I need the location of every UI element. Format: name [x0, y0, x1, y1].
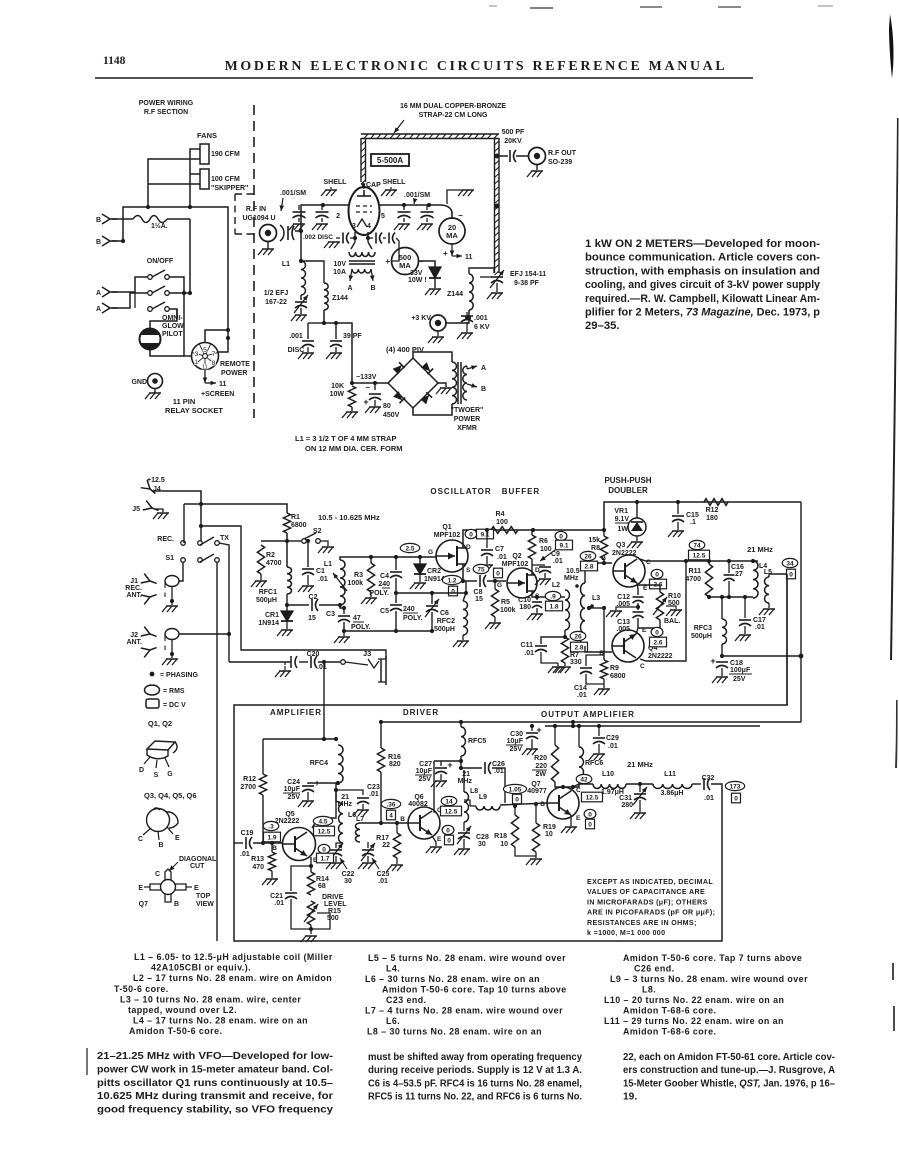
svg-text:PUSH-PUSH: PUSH-PUSH — [604, 476, 651, 485]
svg-text:S1: S1 — [165, 555, 174, 562]
svg-text:26: 26 — [584, 553, 592, 560]
svg-text:R7: R7 — [570, 652, 579, 659]
svg-text:R.F SECTION: R.F SECTION — [144, 109, 188, 116]
arrow to pin 11 — [204, 370, 206, 383]
svg-text:0: 0 — [322, 846, 326, 853]
inductor L10 — [593, 784, 626, 789]
svg-text:J5: J5 — [132, 506, 140, 513]
svg-text:10: 10 — [545, 831, 553, 838]
wire driver collector node — [460, 756, 462, 770]
svg-text:2: 2 — [336, 213, 340, 220]
wire meter to zener — [418, 261, 435, 267]
inductor RFC3 — [721, 597, 723, 619]
svg-text:B: B — [158, 842, 163, 849]
capacitor C28 variable — [463, 822, 465, 831]
inductor RFC1 — [287, 567, 292, 594]
capacitor C14 — [586, 655, 604, 666]
svg-text:C14: C14 — [574, 685, 587, 692]
capacitor C6 variable — [431, 593, 433, 604]
capacitor C18 — [716, 661, 728, 663]
svg-text:L1: L1 — [324, 561, 332, 568]
svg-text:R6: R6 — [539, 538, 548, 545]
wire grid line — [295, 230, 301, 232]
wire collector to L10 — [573, 784, 593, 787]
svg-text:42: 42 — [580, 776, 588, 783]
transformer output arrows A B — [467, 366, 477, 369]
svg-text:.01: .01 — [318, 576, 328, 583]
svg-text:6 KV: 6 KV — [474, 324, 490, 331]
resistor R17 — [396, 823, 398, 833]
svg-text:0: 0 — [655, 629, 659, 636]
wire L3 center tap — [589, 607, 604, 609]
svg-text:21 MHz: 21 MHz — [627, 760, 653, 769]
svg-text:0: 0 — [559, 533, 563, 540]
svg-text:R15: R15 — [328, 908, 341, 915]
svg-text:C8: C8 — [474, 589, 483, 596]
ground tap C12 C13 — [616, 607, 638, 610]
svg-text:470: 470 — [252, 864, 264, 871]
svg-text:+: + — [536, 725, 541, 735]
svg-text:330: 330 — [570, 659, 582, 666]
inductor L4 — [753, 561, 758, 598]
junction — [402, 203, 406, 207]
svg-text:RESISTANCES ARE IN OHMS;: RESISTANCES ARE IN OHMS; — [587, 919, 697, 927]
svg-text:0: 0 — [447, 838, 451, 845]
svg-text:C18: C18 — [730, 660, 743, 667]
svg-text:C13: C13 — [617, 619, 630, 626]
svg-text:0: 0 — [588, 811, 592, 818]
dashed box R.F IN — [235, 193, 254, 195]
svg-text:L3: L3 — [592, 595, 600, 602]
ground bottom rail — [343, 631, 345, 636]
svg-text:"SKIPPER": "SKIPPER" — [211, 185, 248, 192]
svg-text:B: B — [599, 650, 604, 657]
svg-text:1.2: 1.2 — [447, 577, 456, 584]
connector R.F IN BNC J — [260, 225, 277, 242]
svg-text:167-22: 167-22 — [265, 299, 287, 306]
tube 3-500A envelope — [349, 187, 380, 235]
wire source node — [463, 564, 477, 581]
svg-text:R3: R3 — [354, 572, 363, 579]
svg-text:1½A.: 1½A. — [151, 222, 168, 230]
svg-text:220: 220 — [535, 763, 547, 770]
svg-text:27: 27 — [735, 571, 743, 578]
svg-text:.001/SM: .001/SM — [280, 190, 306, 197]
svg-text:OUTPUT AMPLIFIER: OUTPUT AMPLIFIER — [541, 710, 635, 719]
inductor RFC2 — [463, 593, 466, 601]
capacitor C22 variable — [336, 843, 343, 848]
svg-text:+: + — [443, 249, 448, 258]
svg-text:12.5: 12.5 — [445, 809, 458, 816]
svg-text:BAL.: BAL. — [664, 618, 680, 625]
svg-text:BUFFER: BUFFER — [502, 487, 540, 496]
svg-text:E: E — [643, 585, 648, 592]
oval 42 box 12.5 output — [576, 774, 592, 783]
svg-text:100 CFM: 100 CFM — [211, 176, 240, 183]
inductor L8 — [460, 770, 462, 792]
svg-text:0: 0 — [451, 589, 455, 596]
svg-text:−133V: −133V — [356, 374, 377, 381]
meter 500 MA — [392, 248, 419, 275]
capacitor 80 450V — [374, 383, 376, 390]
svg-text:L9 – 3 turns No. 28 enam. wire: L9 – 3 turns No. 28 enam. wire wound ove… — [610, 974, 808, 984]
wire center tap down — [603, 608, 605, 660]
wire J3 to amplifier — [323, 662, 325, 739]
svg-text:C9: C9 — [551, 551, 560, 558]
svg-text:10.5: 10.5 — [566, 568, 580, 575]
svg-text:29–35.: 29–35. — [585, 320, 620, 332]
svg-text:+: + — [385, 257, 390, 266]
svg-text:1.8: 1.8 — [549, 604, 558, 611]
wire supply branch — [263, 738, 338, 740]
svg-text:CR2: CR2 — [427, 568, 441, 575]
svg-text:MHz: MHz — [564, 575, 579, 582]
resistor R11 — [705, 564, 712, 597]
capacitor C12 — [637, 583, 638, 595]
svg-text:0: 0 — [446, 827, 450, 834]
svg-text:4: 4 — [389, 813, 393, 820]
svg-text:VIEW: VIEW — [196, 901, 214, 908]
svg-text:C19: C19 — [241, 830, 254, 837]
wire long vertical to amplifier — [216, 562, 218, 941]
svg-text:10W !: 10W ! — [408, 277, 427, 284]
capacitor C27 — [440, 761, 442, 765]
connector B lower — [102, 236, 117, 246]
svg-text:B: B — [540, 801, 545, 808]
oval 0 box 2.6 Q4 emitter — [651, 627, 663, 636]
svg-text:68: 68 — [318, 883, 326, 890]
resistor R4 — [491, 527, 518, 534]
svg-text:DRIVER: DRIVER — [403, 708, 439, 717]
capacitor C16 — [724, 574, 735, 576]
svg-text:C: C — [138, 836, 143, 843]
svg-text:C31: C31 — [619, 795, 632, 802]
svg-text:R8: R8 — [591, 545, 600, 552]
variable capacitor 1/2 EFJ 167-22 — [300, 295, 302, 300]
svg-text:15: 15 — [308, 615, 316, 622]
svg-text:.01: .01 — [577, 692, 587, 699]
svg-text:100: 100 — [496, 519, 508, 526]
svg-text:A: A — [96, 290, 101, 297]
svg-text:good frequency stability, so V: good frequency stability, so VFO frequen… — [97, 1105, 333, 1116]
svg-text:25V: 25V — [733, 676, 746, 683]
wire +3KV line — [446, 310, 469, 323]
svg-text:100k: 100k — [500, 607, 516, 614]
wire switch outputs — [169, 277, 184, 345]
svg-text:GLOW: GLOW — [162, 323, 184, 330]
svg-text:240: 240 — [378, 581, 390, 588]
svg-text:L5: L5 — [764, 569, 772, 576]
svg-text:MA: MA — [446, 231, 458, 240]
wire curved plate lead — [440, 205, 452, 218]
resistor 10K 10W — [348, 386, 355, 407]
wire supply rail lower — [380, 721, 801, 723]
svg-text:pitts oscillator Q1 runs conti: pitts oscillator Q1 runs continuously at… — [97, 1078, 333, 1089]
wire L2 bottom — [564, 630, 566, 637]
svg-text:+3 KV: +3 KV — [411, 315, 431, 322]
svg-text:struction, with emphasis on in: struction, with emphasis on insulation a… — [585, 265, 820, 277]
wire Q2 drain to R6 — [531, 559, 533, 575]
svg-text:C26 end.: C26 end. — [634, 964, 675, 974]
diode CR2 — [419, 557, 421, 564]
wire B leads — [112, 219, 123, 241]
capacitor C11 — [541, 637, 565, 644]
svg-text:1/2 EFJ: 1/2 EFJ — [264, 290, 289, 297]
svg-text:E: E — [437, 836, 442, 843]
svg-text:15-Meter Goober Whistle, QST,: 15-Meter Goober Whistle, QST, Jan. 1976,… — [623, 1078, 835, 1089]
svg-text:25V: 25V — [510, 746, 523, 753]
svg-text:9.1: 9.1 — [480, 532, 489, 539]
svg-text:.01: .01 — [369, 791, 379, 798]
transistor Q4 2N2222 — [612, 630, 644, 662]
svg-text:RFC2: RFC2 — [437, 618, 455, 625]
svg-text:C6 is 4–53.5 pF. RFC4 is 16 tu: C6 is 4–53.5 pF. RFC4 is 16 turns No. 28… — [368, 1078, 582, 1089]
svg-text:R10: R10 — [668, 593, 681, 600]
svg-text:10μF: 10μF — [507, 738, 524, 745]
wire TX feed to J3 jack — [201, 526, 386, 659]
svg-text:R13: R13 — [251, 856, 264, 863]
svg-text:500μH: 500μH — [434, 626, 455, 633]
svg-text:30: 30 — [344, 878, 352, 885]
svg-text:C27: C27 — [419, 761, 432, 768]
capacitor grid bypass 2 — [321, 205, 323, 210]
capacitor plate bypass 1 — [403, 205, 405, 210]
svg-text:.01: .01 — [497, 554, 507, 561]
connector R.F OUT SO-239 — [529, 148, 546, 165]
svg-text:74: 74 — [693, 542, 701, 549]
oval 0 box 9.1 with arrow — [555, 531, 567, 540]
svg-text:ers construction and tune-up.—: ers construction and tune-up.—J. Rusgrov… — [623, 1065, 836, 1076]
scan artifact right edge line — [890, 118, 899, 660]
resistor R13 — [271, 843, 273, 852]
svg-text:+: + — [363, 397, 368, 407]
connector A upper — [102, 287, 117, 297]
svg-text:L7 – 4 turns No. 28 enam. wire: L7 – 4 turns No. 28 enam. wire wound ove… — [365, 1006, 563, 1016]
wire drain to rail — [463, 530, 604, 548]
capacitor C9 — [532, 564, 545, 566]
inductor L11 — [653, 784, 692, 789]
legend RMS — [145, 685, 160, 695]
svg-text:C23: C23 — [367, 784, 380, 791]
svg-text:R17: R17 — [376, 835, 389, 842]
svg-text:C30: C30 — [510, 731, 523, 738]
svg-text:Q1: Q1 — [442, 524, 451, 531]
svg-text:E: E — [642, 627, 647, 634]
svg-text:450V: 450V — [383, 412, 400, 419]
svg-text:E: E — [138, 885, 143, 892]
svg-text:15k: 15k — [588, 537, 600, 544]
wire S node to mid rail — [465, 581, 467, 593]
scan artifact right hook — [889, 14, 893, 78]
capacitor .001 DISC — [308, 322, 324, 324]
svg-text:REMOTE: REMOTE — [220, 361, 250, 368]
svg-text:2.8: 2.8 — [574, 645, 583, 652]
svg-text:D: D — [466, 544, 471, 551]
inductor L6 — [339, 804, 344, 843]
wire oscillator mid rail — [396, 592, 466, 594]
ground — [536, 165, 538, 170]
potentiometer R15 drive level — [307, 901, 314, 925]
svg-text:VR1: VR1 — [614, 508, 628, 515]
svg-text:MA: MA — [399, 261, 411, 270]
capacitor C4 — [395, 557, 397, 570]
svg-text:SHELL: SHELL — [383, 179, 407, 186]
capacitor C24 — [308, 783, 338, 784]
svg-text:POLY.: POLY. — [351, 624, 371, 631]
wire to caps — [324, 310, 352, 383]
svg-text:22: 22 — [382, 842, 390, 849]
capacitor C26 — [484, 762, 486, 774]
svg-text:C29: C29 — [606, 735, 619, 742]
capacitor .002 DISC — [287, 226, 289, 240]
svg-text:DOUBLER: DOUBLER — [608, 486, 648, 495]
inductor Z144 right — [469, 274, 473, 310]
svg-text:L11: L11 — [664, 771, 676, 778]
resistor R12 doubler — [704, 499, 728, 506]
svg-text:J2: J2 — [130, 632, 138, 639]
oval .9 box 1.8 — [545, 591, 561, 600]
svg-text:500 PF: 500 PF — [502, 129, 525, 136]
boxed label 5-500A — [371, 154, 409, 166]
svg-text:.01: .01 — [553, 558, 563, 565]
svg-text:25V: 25V — [419, 776, 432, 783]
svg-text:C25: C25 — [377, 871, 390, 878]
svg-text:R5: R5 — [501, 599, 510, 606]
svg-text:.3: .3 — [268, 823, 274, 830]
svg-text:L4.: L4. — [386, 964, 400, 974]
svg-text:80: 80 — [383, 403, 391, 410]
copper strap hatched — [361, 133, 499, 135]
svg-text:2700: 2700 — [240, 784, 256, 791]
svg-text:0: 0 — [469, 531, 473, 538]
svg-text:.01: .01 — [608, 743, 618, 750]
svg-text:MHz: MHz — [458, 778, 473, 785]
svg-text:−: − — [365, 383, 370, 392]
svg-text:C5: C5 — [380, 608, 389, 615]
svg-text:180: 180 — [519, 604, 531, 611]
connector J3 — [341, 660, 346, 665]
svg-text:G: G — [428, 549, 433, 556]
svg-text:11: 11 — [219, 381, 227, 388]
resistor R3 — [370, 557, 372, 563]
svg-text:Amidon T-50-6 core. Tap 7 tur: Amidon T-50-6 core. Tap 7 turns above — [623, 953, 802, 963]
svg-text:Amidon T-68-6 core.: Amidon T-68-6 core. — [623, 1006, 716, 1016]
svg-text:10: 10 — [500, 841, 508, 848]
svg-text:39 PF: 39 PF — [343, 333, 362, 340]
svg-text:.01: .01 — [755, 624, 765, 631]
wire box border — [234, 574, 787, 941]
svg-text:L1: L1 — [282, 261, 290, 268]
inductor RFC4 — [338, 745, 343, 783]
switch S ganged contacts — [148, 275, 153, 280]
wire -133V to bridge — [352, 382, 388, 384]
fan motor 1 — [200, 144, 209, 164]
zener diode 33V 10W — [429, 267, 441, 278]
svg-text:LEVEL: LEVEL — [324, 901, 347, 908]
svg-text:C32: C32 — [702, 775, 715, 782]
svg-text:10K: 10K — [331, 383, 344, 390]
wire L7 to driver base — [381, 822, 408, 824]
capacitor C21 — [291, 866, 311, 891]
capacitor C23 — [336, 790, 363, 795]
svg-text:L1 = 3 1/2 T OF 4 MM STRAP: L1 = 3 1/2 T OF 4 MM STRAP — [295, 434, 396, 443]
svg-text:.01: .01 — [317, 664, 327, 671]
svg-text:FANS: FANS — [197, 131, 217, 140]
svg-text:3.86μH: 3.86μH — [661, 790, 684, 797]
svg-text:Z144: Z144 — [447, 291, 463, 298]
svg-text:OSCILLATOR: OSCILLATOR — [430, 487, 491, 496]
oval 0 box 0 Q7 — [584, 809, 596, 818]
svg-text:E: E — [576, 815, 581, 822]
svg-text:A: A — [347, 285, 352, 292]
svg-text:CR1: CR1 — [265, 612, 279, 619]
svg-text:UG1094 U: UG1094 U — [242, 215, 275, 222]
svg-text:9.1: 9.1 — [559, 543, 568, 550]
svg-text:15: 15 — [475, 596, 483, 603]
oval .36 box 4 — [381, 799, 400, 808]
svg-text:Q6: Q6 — [414, 794, 423, 801]
svg-text:Amidon T-68-6 core.: Amidon T-68-6 core. — [623, 1027, 716, 1037]
svg-text:RFC4: RFC4 — [310, 760, 328, 767]
svg-text:Q1, Q2: Q1, Q2 — [148, 719, 172, 728]
svg-text:MPF102: MPF102 — [434, 532, 461, 539]
svg-text:S: S — [466, 567, 471, 574]
arrow meter to 11 — [451, 244, 453, 256]
capacitor C15 — [677, 502, 679, 514]
wire Q4 collector to combiner — [640, 561, 686, 661]
capacitor C13 — [637, 603, 639, 610]
svg-text:2N2222: 2N2222 — [648, 653, 673, 660]
svg-text:0: 0 — [655, 571, 659, 578]
svg-text:8: 8 — [212, 360, 216, 367]
svg-text:DRIVE: DRIVE — [322, 894, 344, 901]
svg-text:T-50-6 core.: T-50-6 core. — [114, 984, 169, 994]
svg-text:SHELL: SHELL — [324, 179, 348, 186]
svg-text:1N914: 1N914 — [424, 576, 445, 583]
svg-text:Q3: Q3 — [616, 542, 625, 549]
wire Q4 emitter — [636, 628, 638, 634]
svg-text:B: B — [400, 816, 405, 823]
svg-text:R12: R12 — [243, 776, 256, 783]
svg-text:6800: 6800 — [291, 522, 307, 529]
resistor R19 — [535, 806, 537, 823]
svg-text:ON/OFF: ON/OFF — [147, 258, 174, 265]
diode CR1 — [286, 594, 288, 611]
wire Q2 source — [532, 591, 565, 597]
svg-text:REC.: REC. — [157, 536, 174, 543]
oval 34 box 0 — [782, 558, 798, 567]
legend PHASING — [150, 672, 155, 677]
svg-text:R12: R12 — [706, 507, 719, 514]
svg-text:10A: 10A — [333, 269, 346, 276]
svg-text:L11 – 29 turns No. 22 enam. wi: L11 – 29 turns No. 22 enam. wire on an — [604, 1016, 784, 1026]
svg-text:3: 3 — [352, 223, 356, 230]
svg-text:180: 180 — [706, 515, 718, 522]
resistor R12 amp — [259, 774, 266, 795]
svg-text:Q7: Q7 — [139, 901, 148, 908]
svg-text:14: 14 — [445, 798, 453, 805]
svg-text:R1: R1 — [291, 514, 300, 521]
svg-text:POWER: POWER — [221, 370, 247, 377]
svg-text:TOP: TOP — [196, 893, 211, 900]
svg-text:190 CFM: 190 CFM — [211, 151, 240, 158]
wire plate line — [379, 204, 440, 206]
svg-text:cooling, and gives circuit of: cooling, and gives circuit of 3-kV power… — [585, 279, 821, 291]
wire oscillator bottom rail — [344, 630, 432, 632]
wire rail up doubler — [604, 502, 801, 530]
svg-text:E: E — [194, 885, 199, 892]
svg-text:G: G — [167, 771, 173, 778]
